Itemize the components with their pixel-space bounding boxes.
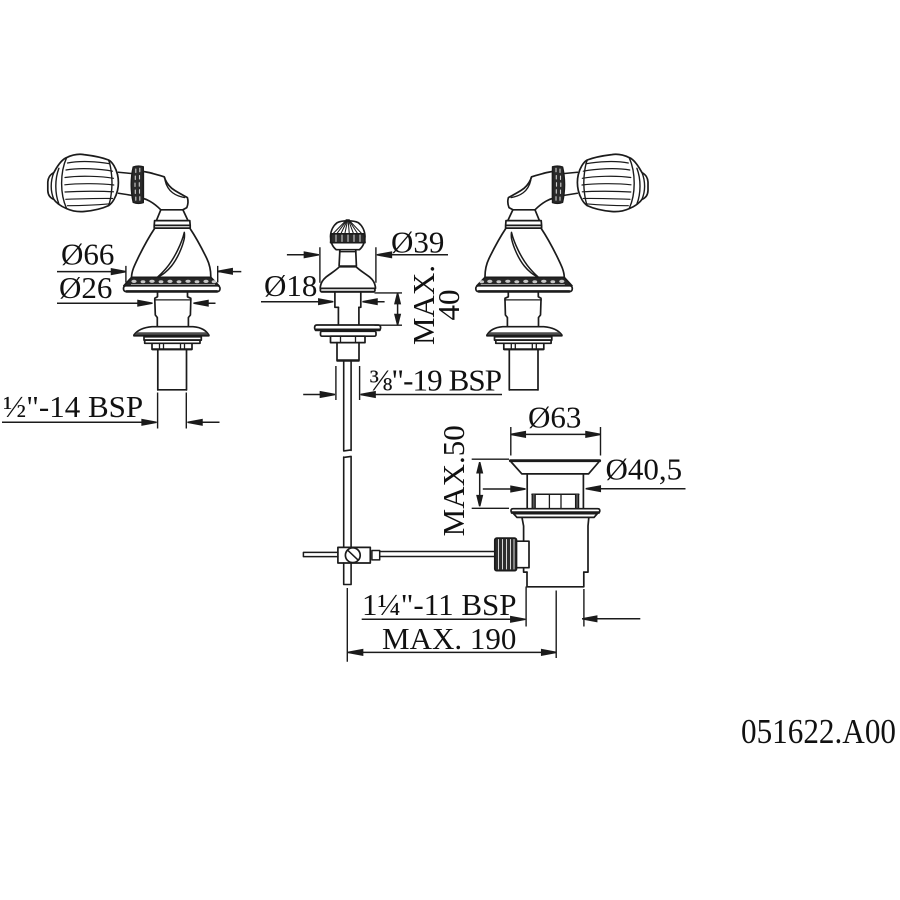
svg-text:1¼"-11 BSP: 1¼"-11 BSP — [362, 587, 517, 622]
svg-text:½"-14 BSP: ½"-14 BSP — [3, 389, 143, 424]
svg-text:051622.A00: 051622.A00 — [741, 712, 896, 751]
svg-text:MAX. 190: MAX. 190 — [382, 621, 516, 656]
svg-text:Ø40,5: Ø40,5 — [606, 452, 683, 487]
svg-text:Ø18: Ø18 — [264, 268, 317, 303]
svg-text:40: 40 — [431, 290, 466, 321]
svg-text:Ø63: Ø63 — [528, 400, 581, 435]
svg-text:Ø66: Ø66 — [61, 237, 114, 272]
svg-text:Ø26: Ø26 — [59, 270, 112, 305]
svg-text:MAX.50: MAX.50 — [436, 425, 471, 536]
svg-text:⅜"-19 BSP: ⅜"-19 BSP — [369, 363, 501, 398]
svg-text:Ø39: Ø39 — [391, 225, 444, 260]
